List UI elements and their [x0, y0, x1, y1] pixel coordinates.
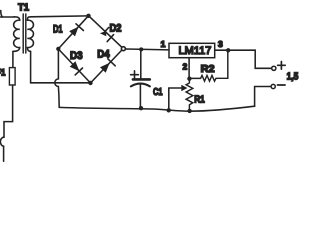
output - terminal	[271, 84, 275, 88]
node: C1 bottom junction	[139, 106, 143, 110]
transformer T1 primary winding	[13, 17, 20, 52]
bridge side bottom-right (D4)	[91, 49, 124, 83]
potentiometer R1 (vertical)	[186, 80, 193, 111]
diode D1	[69, 27, 78, 37]
wire: bridge right vertex to LM117 input	[125, 48, 169, 51]
resistor R2	[189, 50, 227, 81]
transformer T1 core	[22, 14, 24, 53]
bridge side left-top (D1)	[58, 16, 88, 49]
svg-text:D1: D1	[53, 23, 63, 35]
svg-text:D3: D3	[70, 50, 83, 62]
transformer T1 secondary winding	[27, 17, 33, 52]
wire: plug stub	[3, 146, 5, 161]
node: C1 top junction	[139, 47, 143, 51]
node: bridge right junction (open)	[121, 47, 125, 51]
wire: wiper to rail	[168, 88, 170, 110]
svg-text:C1: C1	[153, 86, 163, 98]
capacitor C1 top lead	[140, 49, 142, 78]
bridge side top-right (D2)	[89, 16, 124, 49]
diode D2 (arrow + tick + bar)	[100, 31, 106, 36]
ground/bottom rail	[59, 106, 254, 111]
node: bridge left junction	[56, 47, 60, 51]
wire: primary bottom lead to fuse	[12, 51, 14, 67]
diode D4	[100, 63, 110, 73]
output + terminal	[272, 66, 276, 70]
wire: LM117 adj pin 2 down	[188, 58, 190, 77]
op-amp/regulator U1 LM117 box	[169, 43, 215, 57]
node: bridge top junction	[86, 14, 90, 18]
capacitor C1 bottom plate	[131, 84, 150, 87]
capacitor C1 top plate	[133, 78, 150, 81]
node: bridge bottom junction	[88, 81, 92, 85]
wire: mains hook top-left edge	[1, 11, 3, 18]
wire: LM117 output to + terminal	[215, 50, 272, 68]
fuse F1	[9, 68, 15, 85]
svg-text:3: 3	[218, 39, 223, 49]
wire: fuse down, step left, to plug stub	[4, 85, 13, 137]
plug bump bottom-left	[0, 137, 4, 146]
svg-text:D2: D2	[110, 23, 122, 35]
svg-text:1,5: 1,5	[287, 72, 299, 83]
node: output junction	[226, 48, 230, 52]
bridge side left-bottom (D3)	[58, 49, 90, 83]
svg-text:LM117: LM117	[179, 45, 212, 57]
wire: secondary bottom lead down and right to bridge bottom node	[31, 51, 91, 82]
output minus sign	[278, 84, 286, 86]
C1 polarity plus	[131, 71, 139, 79]
node: adj junction	[187, 77, 191, 81]
svg-text:R1: R1	[194, 94, 205, 106]
diode D3	[70, 61, 80, 71]
svg-text:F1: F1	[0, 68, 5, 78]
wire: left vertex down with hop over AC wire, to ground rail	[55, 51, 59, 107]
node: wiper rail junction	[167, 108, 171, 112]
svg-text:2: 2	[183, 62, 188, 71]
wire: secondary top to bridge top node	[31, 15, 89, 18]
wire: minus terminal to rail	[255, 87, 272, 107]
R1 wiper arrow	[169, 87, 182, 89]
wire: top-left mains to transformer primary	[0, 16, 14, 18]
capacitor C1 bottom lead	[139, 84, 141, 108]
svg-text:T1: T1	[18, 2, 30, 13]
svg-text:D4: D4	[97, 48, 110, 60]
output plus sign	[278, 62, 286, 70]
node: R1 bottom junction	[187, 109, 191, 113]
svg-text:R2: R2	[201, 63, 215, 75]
svg-text:1: 1	[161, 39, 166, 49]
